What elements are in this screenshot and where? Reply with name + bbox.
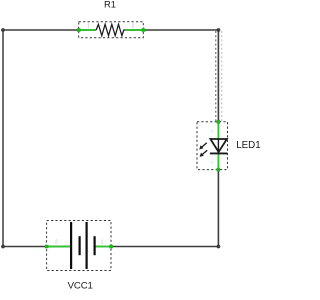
svg-text:1: 1 [101, 240, 104, 246]
wire right-upper segment (corner to LED1, selected) [216, 30, 222, 122]
junction bottom-right corner [217, 245, 221, 249]
junction top-left corner [1, 28, 5, 32]
svg-text:2: 2 [55, 240, 58, 246]
wire left segment (corner to corner) [2, 30, 4, 247]
wire bottom-left segment (corner to VCC1) [3, 246, 48, 248]
wire bottom-right segment (VCC1 to corner) [111, 246, 219, 248]
wire right-lower segment (LED1 to corner) [217, 170, 219, 247]
svg-text:K: K [211, 159, 214, 164]
svg-text:2: 2 [132, 24, 135, 30]
svg-text:VCC1: VCC1 [68, 281, 93, 292]
wire top-left segment (corner to R1) [3, 29, 80, 31]
LED U: LED1 [197, 120, 228, 171]
resistor R1 [77, 22, 145, 38]
svg-text:R1: R1 [104, 0, 116, 9]
battery VCC1 [45, 221, 113, 271]
junction bottom-left corner [1, 245, 5, 249]
svg-text:A: A [211, 129, 214, 134]
svg-text:1: 1 [87, 24, 90, 30]
svg-text:LED1: LED1 [236, 140, 261, 151]
wire top-right segment (R1 to corner) [143, 29, 219, 31]
junction top-right corner [217, 28, 221, 32]
